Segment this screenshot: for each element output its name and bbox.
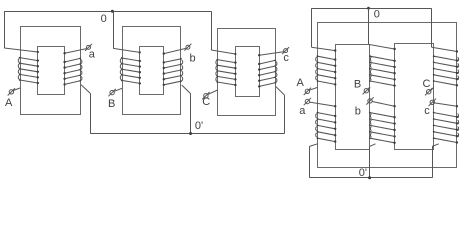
wire T1 primary bottom to terminal A: [13, 88, 20, 91]
wire terminal b to T4 b winding: [372, 102, 396, 108]
label C (right unit): [423, 78, 431, 90]
svg-text:b: b: [190, 53, 196, 65]
transformer T1 core window: [38, 47, 65, 95]
wire T4 a winding bottom to 0' bus: [310, 144, 318, 178]
wire 0' bus (right unit bottom): [310, 177, 433, 179]
svg-text:a: a: [89, 49, 96, 61]
svg-text:c: c: [283, 52, 289, 64]
svg-text:0: 0: [101, 13, 107, 25]
terminal B: [108, 89, 115, 96]
transformer T3 primary winding C: [216, 59, 237, 86]
transformer T4 core window 1: [336, 45, 370, 150]
svg-text:b: b: [355, 105, 361, 117]
junction on 0' bus: [368, 176, 371, 179]
junction on 0' bus at T2 lead: [189, 132, 192, 135]
svg-text:B: B: [354, 79, 361, 91]
transformer T4 HV winding B: [369, 55, 396, 87]
wire T3 secondary top to terminal c: [258, 52, 284, 57]
transformer T2 primary winding B: [120, 57, 141, 84]
wire T2 primary bottom to terminal B: [114, 88, 122, 91]
wire 0 bus to T3 primary top: [211, 11, 236, 55]
wire T3 secondary bottom to 0' bus: [276, 87, 285, 134]
wire T4 B winding to terminal B: [368, 87, 370, 89]
wire T4 A winding to terminal A: [309, 87, 317, 90]
label b: [190, 53, 196, 65]
transformer T3 core window: [236, 47, 260, 97]
svg-text:A: A: [5, 97, 13, 109]
terminal b: [184, 44, 191, 51]
wire terminal a to T4 a winding: [310, 102, 337, 107]
terminal A: [8, 88, 15, 95]
transformer T2 core window: [140, 47, 164, 95]
wire 0 bus to T2 primary top: [113, 11, 141, 53]
wire 0' bus (left group bottom): [90, 133, 284, 135]
transformer T1 secondary winding a: [63, 58, 81, 86]
label 0' (left group): [195, 120, 203, 132]
svg-text:C: C: [423, 78, 431, 90]
terminal C: [425, 88, 432, 95]
terminal b: [366, 97, 373, 104]
wire 0 bus to T4 B winding top: [369, 8, 396, 50]
wire T1 secondary top to terminal a: [63, 49, 86, 55]
svg-text:0': 0': [195, 120, 203, 132]
transformer T4 LV winding c: [433, 112, 459, 144]
label A (right unit): [297, 77, 305, 89]
label B (right unit): [354, 79, 361, 91]
wire 0 bus to T1 primary top: [4, 11, 39, 53]
transformer T2 secondary winding b: [163, 58, 183, 86]
junction on 0 bus at limb B lead: [367, 7, 370, 10]
transformer T2 core outline: [123, 27, 181, 115]
label 0 (right unit): [374, 9, 380, 21]
terminal B: [363, 87, 370, 94]
label A: [5, 97, 13, 109]
wire T2 secondary bottom to 0' bus: [182, 85, 191, 134]
label C: [202, 96, 210, 108]
terminal a: [304, 98, 311, 105]
terminal c: [282, 47, 289, 54]
label B: [108, 98, 115, 110]
wire T3 primary bottom to terminal C: [208, 90, 218, 94]
transformer T3 secondary winding c: [258, 60, 277, 88]
terminal C: [202, 92, 209, 99]
label a (right unit): [299, 105, 306, 117]
wire 0 bus to T4 A winding top: [312, 8, 337, 52]
transformer T4 LV winding a: [316, 112, 337, 143]
transformer T1 primary winding A: [18, 57, 39, 84]
transformer T3 core outline: [218, 29, 276, 116]
transformer T4 core outline: [318, 23, 457, 168]
junction on 0 bus at T2 lead: [111, 10, 114, 13]
svg-text:A: A: [297, 77, 305, 89]
svg-text:B: B: [108, 98, 115, 110]
wire T1 secondary bottom to 0' bus: [81, 85, 91, 134]
wire T4 C winding to terminal C: [431, 87, 434, 90]
terminal a: [85, 44, 92, 51]
svg-text:a: a: [299, 105, 306, 117]
label c: [283, 52, 289, 64]
wire 0 bus to T4 C winding top: [432, 8, 459, 53]
wire 0 bus (left group top): [4, 11, 211, 13]
svg-text:0': 0': [359, 167, 367, 179]
svg-text:C: C: [202, 96, 210, 108]
wire 0 bus (right unit top): [312, 8, 432, 10]
label 0 (left group): [101, 13, 107, 25]
transformer T4 core window 2: [395, 44, 434, 150]
wire T2 secondary top to terminal b: [163, 48, 186, 54]
transformer T4 HV winding C: [433, 55, 459, 86]
wire T4 c winding bottom to 0' bus: [432, 144, 439, 178]
label 0' (right unit): [359, 167, 367, 179]
wire terminal c to T4 c winding: [435, 103, 459, 108]
transformer T4 LV winding b: [369, 112, 396, 144]
svg-text:c: c: [424, 105, 430, 117]
svg-text:0: 0: [374, 9, 380, 21]
label a: [89, 49, 96, 61]
terminal A: [304, 88, 311, 95]
terminal c: [429, 99, 436, 106]
label c (right unit): [424, 105, 430, 117]
transformer T1 core outline: [21, 27, 81, 115]
wire T4 b winding bottom to 0' bus: [370, 144, 376, 178]
transformer T4 HV winding A: [316, 55, 337, 85]
label b (right unit): [355, 105, 361, 117]
